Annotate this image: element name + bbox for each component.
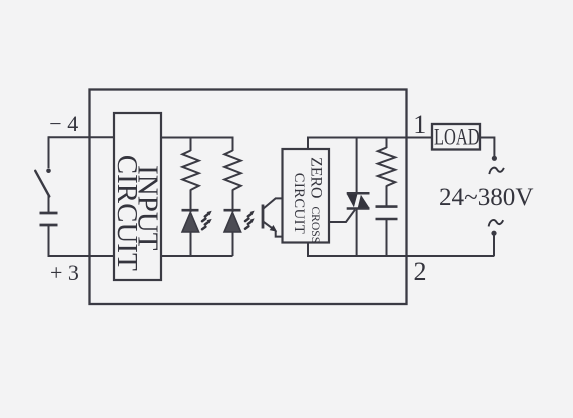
- wire: triac bottom lead: [356, 209, 358, 257]
- AC top tilde: [489, 168, 504, 174]
- LED D1 cathode bar: [182, 209, 199, 212]
- resistor R3 (snubber): [378, 148, 395, 187]
- wire: input terminal 3 (bottom-left horizontal): [49, 255, 115, 257]
- phototransistor Q1 emitter lead: [276, 231, 284, 237]
- INPUT CIRCUIT block U1: [114, 113, 161, 280]
- photon arrows of LED D2 (into phototransistor): [242, 209, 256, 221]
- triac Q2 bottom bar: [347, 207, 370, 210]
- ZERO CROSS CIRCUIT block U2: [283, 149, 330, 243]
- wire: input side top rail: [161, 137, 233, 139]
- svg-text:+ 3: + 3: [50, 260, 79, 285]
- wire: output bottom rail: [307, 255, 494, 257]
- capacitor C1 bottom plate: [376, 218, 398, 221]
- svg-text:1: 1: [413, 110, 426, 139]
- wire: ZC block bottom stub: [307, 242, 309, 256]
- svg-text:LOAD: LOAD: [434, 125, 480, 150]
- resistor R1: [182, 151, 198, 191]
- wire: output top rail: [307, 137, 432, 139]
- triac Q2 top bar: [347, 192, 370, 195]
- svg-text:2: 2: [414, 257, 427, 286]
- wire: R3 to C1: [386, 186, 388, 208]
- wire: C1 to bottom rail: [386, 219, 388, 256]
- triac Q2 left triangle: [347, 194, 358, 207]
- LED D2 cathode bar: [224, 209, 241, 212]
- AC source bottom terminal dot: [491, 231, 496, 236]
- triac Q2 right triangle: [358, 195, 370, 208]
- wire: between switch and battery: [48, 196, 50, 214]
- svg-text:ZERO: ZERO: [308, 157, 325, 198]
- wire: LED1 to bottom rail: [190, 232, 192, 256]
- AC bottom tilde: [489, 220, 504, 226]
- switch S1 blade: [35, 171, 49, 197]
- wire: AC source bottom to terminal 2: [493, 234, 495, 257]
- phototransistor Q1 collector: [263, 198, 283, 209]
- wire: R1 to LED1: [190, 190, 192, 213]
- svg-text:− 4: − 4: [49, 111, 78, 136]
- wire: triac top lead: [356, 138, 358, 195]
- wire: branch 1 top stub: [190, 138, 192, 152]
- LED D1 triangle: [182, 212, 199, 232]
- resistor R2: [224, 151, 240, 191]
- LOAD box: [432, 124, 480, 150]
- wire: battery to terminal 3: [48, 225, 50, 257]
- wire: branch 2 top stub: [232, 137, 234, 152]
- phototransistor Q1 emitter arrowhead: [270, 225, 278, 232]
- wire: ZC block top stub: [307, 138, 309, 151]
- AC source top terminal dot: [492, 156, 497, 161]
- battery plate top: [40, 212, 58, 215]
- wire: snubber top stub: [386, 138, 388, 149]
- phototransistor Q1 base bar: [262, 205, 265, 229]
- wire: LED2 to bottom rail: [232, 232, 234, 256]
- switch S1 contact dot: [46, 168, 51, 173]
- wire: triac gate: [329, 210, 355, 222]
- phototransistor Q1 emitter: [263, 221, 275, 230]
- wire: left branch upper vertical: [48, 136, 50, 168]
- battery plate bottom: [40, 224, 58, 227]
- svg-text:CROSS: CROSS: [309, 206, 322, 243]
- wire: input terminal 4 (top-left horizontal): [49, 136, 115, 138]
- wire: R2 to LED2: [232, 190, 234, 213]
- capacitor C1 top plate: [376, 205, 398, 208]
- wire: LOAD to AC source top: [480, 138, 494, 158]
- wire: input side bottom rail: [161, 255, 233, 257]
- svg-text:24~380V: 24~380V: [439, 182, 534, 211]
- LED D2 triangle: [224, 212, 241, 232]
- svg-text:CIRCUIT: CIRCUIT: [291, 173, 307, 235]
- svg-text:CIRCUIT: CIRCUIT: [111, 155, 143, 271]
- SSR outer enclosure box: [90, 90, 407, 305]
